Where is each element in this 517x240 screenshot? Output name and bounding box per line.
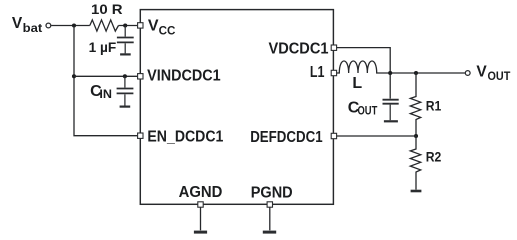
svg-text:R1: R1 — [426, 97, 442, 113]
ground (COUT) — [384, 120, 398, 122]
capacitor COUT — [383, 100, 399, 121]
svg-text:10 R: 10 R — [91, 1, 123, 17]
svg-text:V: V — [12, 15, 23, 32]
inductor L — [337, 61, 390, 73]
ground (AGND) — [194, 231, 207, 234]
wire AGND ground stub — [200, 208, 202, 231]
svg-text:OUT: OUT — [358, 104, 378, 118]
wire DEFDCDC1 to divider — [337, 135, 416, 137]
svg-text:EN_DCDC1: EN_DCDC1 — [147, 129, 223, 146]
svg-text:L1: L1 — [310, 64, 325, 81]
svg-text:VINDCDC1: VINDCDC1 — [147, 68, 221, 85]
junction R1/R2/DEFDCDC1 — [414, 134, 418, 138]
pin VCC — [138, 23, 143, 28]
junction COUT node — [388, 71, 392, 75]
pin DEFDCDC1 — [331, 133, 336, 138]
svg-text:CC: CC — [159, 23, 176, 37]
junction left rail / VINDCDC1 wire — [72, 74, 76, 78]
resistor R2 — [410, 136, 420, 190]
wire output node to VOUT terminal — [390, 72, 465, 74]
svg-text:L: L — [352, 75, 362, 92]
svg-text:V: V — [148, 18, 159, 35]
wire VDCDC1 to output node — [337, 48, 391, 99]
ground (PGND) — [263, 231, 276, 234]
IC U1 body — [140, 10, 333, 205]
junction R1 top node — [414, 71, 418, 75]
capacitor 1uF — [117, 26, 134, 54]
svg-text:1 µF: 1 µF — [89, 39, 117, 55]
svg-text:DEFDCDC1: DEFDCDC1 — [250, 129, 322, 146]
svg-text:OUT: OUT — [488, 71, 511, 83]
node Vbat terminal — [46, 23, 51, 28]
wire PGND ground stub — [269, 208, 271, 231]
wire left rail Vbat down to EN_DCDC1 — [74, 26, 137, 136]
ground (CIN) — [120, 105, 131, 107]
pin EN_DCDC1 — [138, 133, 143, 138]
junction VIN node / CIN — [123, 74, 127, 78]
pin PGND — [267, 202, 272, 207]
svg-text:AGND: AGND — [179, 184, 223, 201]
ground (1uF) — [120, 53, 131, 55]
svg-text:bat: bat — [23, 21, 43, 35]
wire VINDCDC1 — [74, 75, 137, 77]
ground (R2) — [411, 190, 422, 193]
svg-text:PGND: PGND — [251, 184, 293, 201]
node VOUT terminal — [465, 71, 470, 76]
pin VINDCDC1 — [138, 74, 143, 79]
pin L1 — [331, 70, 336, 75]
resistor R1 — [410, 73, 420, 136]
svg-text:VDCDC1: VDCDC1 — [269, 40, 329, 57]
wire resistor to VCC pin — [119, 25, 138, 27]
svg-text:V: V — [476, 63, 487, 80]
junction VCC node / 1uF — [123, 23, 127, 27]
pin AGND — [198, 202, 203, 207]
junction Vbat/left-rail — [72, 23, 76, 27]
capacitor CIN — [117, 76, 134, 105]
resistor 10 R — [90, 20, 119, 31]
pin VDCDC1 — [331, 45, 336, 50]
svg-text:R2: R2 — [426, 149, 442, 165]
svg-text:IN: IN — [99, 87, 112, 101]
wire Vbat to resistor R (10 R) — [51, 25, 90, 27]
